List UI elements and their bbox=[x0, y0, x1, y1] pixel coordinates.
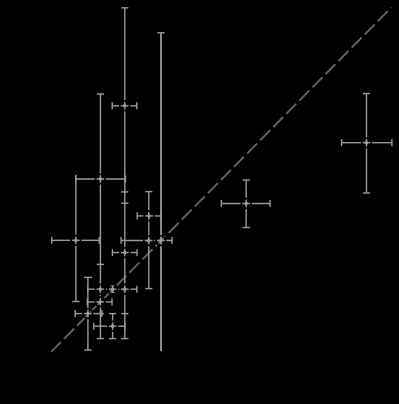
cap top of x=160.8 bbox=[157, 32, 164, 34]
marker dot P4 bbox=[74, 239, 77, 242]
caps bar y=313.6 bbox=[74, 310, 76, 317]
bottom cap on vertical x=75.9 bbox=[72, 301, 79, 303]
caps on vertical x=112.6 bbox=[109, 313, 116, 315]
horizontal bar y=177.8 bbox=[76, 178, 126, 180]
caps bar y=240.4 right bbox=[120, 237, 122, 244]
caps on vertical x=148.3 bbox=[145, 191, 152, 193]
caps bar y=142.3 bbox=[341, 139, 343, 146]
marker dot P6 bbox=[123, 251, 126, 254]
marker ring point D bbox=[144, 211, 154, 221]
marker ring tall point bbox=[156, 236, 166, 246]
caps bar y=215.9 bbox=[136, 212, 138, 219]
marker ring P5 bbox=[144, 236, 154, 246]
marker ring P8 bbox=[241, 199, 251, 209]
caps bar y=203.0 bbox=[220, 200, 222, 207]
errorbar vertical x=366.3 bbox=[366, 94, 368, 194]
horizontal bar y=313.6 bbox=[75, 313, 102, 315]
horizontal bar y=215.9 bbox=[137, 215, 161, 217]
horizontal bar y=240.3 left bbox=[52, 239, 99, 241]
marker dot P11 bbox=[98, 300, 101, 303]
marker ring P4 bbox=[71, 236, 81, 246]
marker dot P8 bbox=[245, 202, 248, 205]
caps bar y=177.8 bbox=[75, 176, 77, 183]
errorbar point P1 vertical bbox=[124, 8, 126, 339]
marker ring point E bbox=[96, 285, 106, 295]
errorbar vertical x=246.2 bbox=[245, 180, 247, 228]
errorbar vertical x=148.3 bbox=[148, 192, 150, 289]
caps bar y=252.6 bbox=[111, 249, 113, 256]
marker dot P10 bbox=[86, 312, 89, 315]
caps bar y=287.9 bbox=[87, 286, 89, 293]
marker ring P13 bbox=[108, 284, 118, 294]
marker dot P12 bbox=[111, 325, 114, 328]
errorbar vertical x=87.5 bbox=[87, 277, 89, 350]
marker ring P3 bbox=[96, 174, 106, 184]
horizontal bar y=252.6 bbox=[112, 252, 137, 254]
marker ring P10 bbox=[83, 309, 93, 319]
caps on short vertical x=112.6 bbox=[109, 285, 116, 287]
marker dot point D bbox=[147, 214, 150, 217]
caps bar y=326.2 bbox=[93, 323, 95, 330]
caps on vertical x=100.4 bbox=[97, 93, 104, 95]
marker dot P9 bbox=[365, 141, 368, 144]
marker dot P1 bbox=[123, 104, 126, 107]
horizontal bar y=301.6 bbox=[87, 301, 112, 303]
caps bar y=301.6 bbox=[86, 298, 88, 305]
marker dot P7 bbox=[123, 288, 126, 291]
marker dot P13 bbox=[111, 288, 114, 291]
identity reference line (dashed diagonal y=x) bbox=[51, 8, 391, 353]
marker ring P9 bbox=[362, 138, 372, 148]
errorbar vertical x=100.4 bbox=[99, 94, 101, 339]
errorbar vertical x=112.6 (point P12) bbox=[112, 314, 114, 339]
marker dot P5 bbox=[147, 239, 150, 242]
caps on vertical x=366.3 bbox=[363, 93, 370, 95]
P1 caps on vertical x=125 bbox=[121, 7, 128, 9]
marker dot point E bbox=[99, 288, 102, 291]
caps on vertical x=246.2 bbox=[243, 179, 250, 181]
errorbar vertical x=75.9 bbox=[75, 175, 77, 302]
marker ring P1 bbox=[120, 101, 130, 111]
marker dot P3 bbox=[99, 177, 102, 180]
horizontal bar y=240.4 right bbox=[121, 240, 172, 242]
marker ring P12 bbox=[108, 321, 118, 331]
caps bar y=240.3 left bbox=[51, 237, 53, 244]
marker ring P6 bbox=[120, 248, 130, 258]
horizontal bar y=287.9 bbox=[88, 288, 137, 290]
caps on vertical x=87.5 bbox=[84, 276, 92, 278]
horizontal bar y=203.0 bbox=[221, 203, 270, 205]
horizontal bar y=326.2 bbox=[94, 325, 125, 327]
caps bar y=105.3 bbox=[111, 102, 113, 109]
marker ring P7 bbox=[120, 284, 130, 294]
errorbar tall vertical x=160.8 bbox=[160, 33, 162, 351]
horizontal bar y=142.3 bbox=[342, 142, 392, 144]
marker dot tall point bbox=[159, 239, 162, 242]
horizontal bar y=105.3 bbox=[112, 105, 137, 107]
errorbar short vertical x=112.6 (point P13) bbox=[112, 286, 114, 293]
marker ring P11 bbox=[95, 297, 105, 307]
